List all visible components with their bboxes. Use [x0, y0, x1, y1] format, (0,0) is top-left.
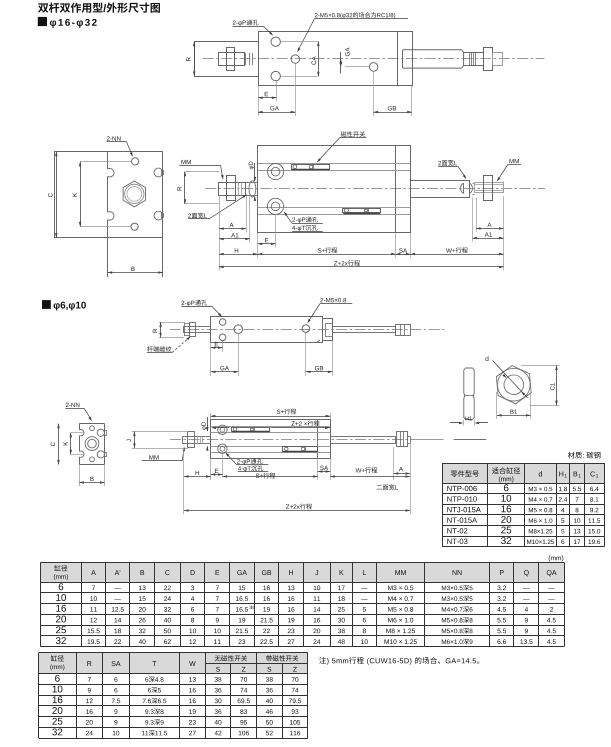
fig2 label 2-phiP/4-phiT [284, 211, 323, 231]
fig2 left rod bar [219, 183, 258, 196]
fig2 dim E [258, 238, 276, 245]
fig4 side centerline [170, 439, 444, 441]
fig4 top switch [232, 427, 270, 431]
fig4 port bottom [218, 444, 227, 453]
fig2 side right cap [396, 146, 411, 233]
fig1 left rod nut [227, 48, 235, 71]
fig4 right tab top [97, 429, 106, 436]
fig4 dim J [127, 432, 188, 449]
fig4 side body [211, 420, 331, 459]
fig2 dim A1 right [473, 232, 504, 239]
fig4 label MM [142, 447, 185, 461]
fig1 right cap [398, 32, 413, 86]
fig3 cap [323, 319, 333, 341]
fig4 groove bottom [211, 447, 331, 453]
fig4 left rod thread [198, 437, 203, 444]
fig4 dim H [184, 471, 211, 478]
nut dim C1 [521, 365, 560, 405]
nut selection table [442, 463, 604, 546]
fig2 label cikaiguan [317, 131, 367, 162]
fig3 dim E [211, 342, 223, 349]
fig4 dim B [79, 465, 104, 487]
fig4 centerline tail dash [454, 439, 487, 441]
fig1 right rod [403, 50, 464, 68]
fig4 dim S top [211, 409, 331, 420]
fig4 bottom switch [283, 447, 318, 452]
fig2 left notch bottom [108, 212, 114, 220]
fig1 left end plate [195, 42, 259, 77]
fig3 dim GA [211, 366, 238, 373]
fig4 left rod bar [183, 437, 211, 444]
fig4 dim E [211, 469, 223, 476]
fig3 dim R [153, 322, 185, 337]
fig2 right rod flats [461, 183, 475, 195]
fig1 center M5 hole [291, 55, 299, 63]
fig2 left rod thread [239, 183, 242, 196]
fig4 ext lines [184, 443, 411, 514]
fig4 dim A [394, 467, 410, 475]
fig2 left rod boss [249, 181, 256, 197]
fig3 label 2-M5 [307, 298, 352, 323]
fig1 dim R [186, 42, 195, 77]
fig2 end view inner edge [107, 152, 109, 238]
fig1 top port hole [271, 37, 280, 46]
fig1 right rod nut [484, 48, 493, 71]
fig3 body step [317, 340, 320, 343]
fig2 bottom switch [343, 208, 381, 213]
fig2 right rod thread [475, 183, 504, 193]
fig2 left rod nut [227, 176, 236, 201]
fig3 label 2-phiP [181, 300, 222, 317]
fig4 left rod nut [188, 432, 195, 448]
fig2 right port bottom [154, 211, 164, 220]
nut side view [464, 368, 474, 420]
fig3 rod [333, 327, 396, 333]
fig2 side body [258, 146, 396, 233]
fig2 port bottom [267, 198, 283, 214]
main dimension table [40, 563, 564, 647]
fig2 NN hole top [132, 158, 139, 165]
fig3 rod end nut [396, 324, 411, 335]
fig3 cap boss [326, 324, 333, 337]
fig2 end view body below [108, 238, 163, 277]
fig1 right M5 hole [369, 63, 378, 72]
fig1 label 2-M5 [297, 12, 408, 52]
fig4 center circles [88, 439, 97, 448]
fig2 dim B [108, 267, 163, 274]
fig3 hole port bottom [219, 334, 226, 341]
fig4 center boss [85, 437, 99, 451]
fig4 side cap line [317, 420, 319, 459]
fig2 label MM left [179, 160, 223, 180]
fig2 NN hole bottom [131, 223, 138, 230]
fig2 dim C [48, 152, 57, 238]
fig4 label 2-NN [65, 403, 92, 422]
fig2 dim A right [476, 223, 504, 230]
fig2 dim K [73, 162, 132, 227]
fig2 dim SA [396, 248, 411, 255]
fig3 hole M5 right [302, 325, 310, 333]
fig2 end view plate [55, 152, 163, 238]
fig4 dim W [330, 467, 410, 478]
fig4 rod end nut [397, 432, 411, 447]
fig2 label 2L left [188, 194, 247, 219]
fig2 dim Z total [219, 260, 504, 268]
fig3 hole port top [219, 319, 226, 326]
fig4 dim S bottom [223, 473, 318, 479]
fig4 port top [218, 425, 227, 434]
stroke/switch table [39, 653, 308, 739]
fig4 end plate [79, 424, 104, 465]
fig2 top sensor groove [258, 164, 411, 171]
fig2 bottom sensor groove [258, 208, 411, 215]
fig2 right port top [154, 168, 164, 177]
fig1 dim GA bottom [258, 64, 296, 117]
fig4 groove top [211, 427, 331, 433]
fig2 side centerline [205, 188, 545, 190]
fig4 dim K [63, 433, 83, 455]
fig4 right rod [331, 437, 396, 444]
fig2 port top [268, 164, 284, 180]
fig2 dim A left [219, 223, 246, 230]
fig3 ext lines [211, 333, 333, 376]
fig4 dim Z [184, 504, 410, 512]
fig2 dim S+stroke [258, 247, 396, 255]
fig3 dim GB [306, 366, 333, 373]
fig2 label 2L right [438, 160, 466, 179]
fig3 label rod thread [147, 336, 191, 352]
fig1 bottom port hole [271, 71, 280, 80]
fig3 hole M5 left [234, 325, 243, 334]
fig1 dim GA vertical [340, 48, 369, 74]
fig1 label 2-phiP tonghole [233, 20, 274, 36]
fig1 left rod thread [246, 53, 253, 65]
fig4 NN hole top [90, 426, 95, 431]
fig2 dim H [219, 248, 258, 255]
nut dim d diagonal [485, 356, 527, 398]
fig2 top switch [292, 164, 330, 169]
fig1 dim CA [281, 41, 320, 76]
nut dim B1 [497, 392, 531, 419]
fig1 left rod bar [219, 53, 245, 66]
fig2 right rod nut MM [484, 176, 493, 201]
fig2 dim phiD [249, 162, 256, 201]
fig1 body [259, 32, 398, 86]
fig3 body [211, 317, 323, 343]
fig2 center hex nut [123, 181, 145, 207]
fig2 dim R left [177, 172, 219, 204]
nut side dim H1 [450, 417, 488, 426]
fig3 left rod bar [184, 327, 211, 333]
fig2 dim A1 left [219, 233, 250, 240]
fig2 ext lines bottom [220, 196, 504, 271]
fig2 left notch top [108, 169, 114, 177]
fig1 dim GB bottom [374, 71, 412, 116]
fig1 right rod thread [464, 52, 484, 65]
fig4 dim phiD [201, 417, 208, 451]
fig4 label 2-phiP/4-phiT [225, 452, 268, 471]
fig4 NN hole bottom [90, 457, 95, 462]
fig2 label 2-NN [107, 136, 133, 157]
fig4 dim SA [318, 466, 330, 473]
fig3 left rod nut [185, 323, 196, 337]
title text [38, 3, 160, 13]
fig4 left notch bottom [80, 451, 84, 457]
fig4 dim C [51, 424, 60, 465]
fig4 left notch top [80, 430, 84, 436]
mm unit note (small table) [549, 555, 564, 561]
fig1 right rod end thread [493, 53, 503, 66]
fig4 note 2L [377, 484, 398, 490]
section marker phi6-10 [42, 300, 86, 310]
footnote [319, 657, 479, 665]
fig4 dim Z inner [211, 421, 330, 430]
material note [568, 452, 601, 459]
fig1 centerline [203, 58, 545, 60]
fig3 centerline [170, 329, 445, 331]
fig2 dim W+stroke [411, 247, 504, 255]
fig2 right rod [411, 181, 470, 198]
fig1 dim E [258, 81, 277, 116]
section marker phi16-32 [38, 17, 97, 28]
fig4 right tab bottom [97, 451, 106, 458]
fig2 label MM right [497, 159, 521, 182]
nut hex view [496, 366, 531, 404]
